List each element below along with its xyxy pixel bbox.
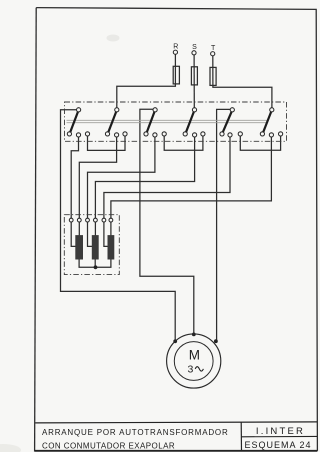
pole 4 contact c [201,132,205,136]
pole 3 contact c [162,132,166,136]
wire contact 1b to autotransformer terminal t1 [71,136,78,221]
wire contact 4b to autotransformer terminal t4 [95,136,194,221]
wire terminal t5 to winding W3 tap [104,220,108,246]
svg-text:3: 3 [187,363,193,375]
pole 5 contact b [228,133,232,137]
pole 6 pivot [270,108,274,112]
switch pole 6 lever [263,111,271,133]
wire bridge contacts 5c-6c [240,135,280,151]
wire terminal t2 to winding W1 top [78,220,80,235]
wire R phase: terminal to fuse to pole 2 pivot [117,53,176,110]
wire pole5 pivot to motor W [217,109,233,341]
pole 3 pivot [153,108,157,112]
wire pole1 pivot to node U run: left bus down to motor U [61,110,176,342]
wire terminal t4 to winding W2 top [94,220,96,235]
pole 2 contact b [115,133,119,137]
wire winding W2 bottom to star bus [94,260,96,268]
switch pole 5 lever [223,111,232,133]
fuse F1 (phase R) [173,66,179,84]
svg-text:ARRANQUE POR AUTOTRANSFORMADOR: ARRANQUE POR AUTOTRANSFORMADOR [42,428,229,437]
switch enclosure dash-dot box (conmutador exapolar) [65,102,287,141]
fuse F2 (phase S) [191,67,197,85]
junction dot motor V [192,333,196,337]
wire T phase: terminal to fuse to pole 6 pivot [213,55,272,110]
junction dot motor W [214,339,218,343]
pole 2 pivot [115,108,119,112]
autotransformer terminal t6 [109,218,113,222]
autotransformer enclosure dash-dot box [64,215,119,275]
wire pole3 pivot to motor V [140,109,194,335]
switch pole 1 lever [70,111,78,133]
svg-text:T: T [211,45,216,52]
wire contact 3b to autotransformer terminal t3 [88,136,155,221]
supply terminal T [211,52,215,56]
pole 4 contact a [183,132,187,136]
pole 5 pivot [230,108,234,112]
winding W2 (autotransformer phase 2) [92,235,99,259]
winding W3 (autotransformer phase 3) [108,235,115,259]
junction dot motor U [173,339,177,343]
wire terminal t3 to winding W2 tap [88,220,92,246]
switch pole 3 lever [147,111,155,133]
supply terminal S [192,51,196,55]
switch mechanical coupling bar [67,120,268,122]
pole 2 contact c [123,132,127,136]
pole 1 contact b [76,133,80,137]
wire contact 6b to autotransformer terminal t6 [111,136,272,221]
wire contact 2b to autotransformer terminal t2 [79,136,116,221]
pole 2 contact a [105,132,109,136]
pole 1 contact a [67,132,71,136]
switch pole 2 lever [108,111,116,133]
motor label sine wave [195,367,203,371]
autotransformer terminal t2 [77,218,81,222]
motor M1 outer circle [167,334,221,388]
wire S phase: terminal to fuse to pole 4 pivot [193,54,195,110]
svg-text:ESQUEMA 24: ESQUEMA 24 [244,440,311,450]
svg-text:I.INTER: I.INTER [256,426,305,437]
pole 1 contact c [85,132,89,136]
junction dot star point [94,265,98,269]
pole 6 contact b [269,133,273,137]
pole 4 pivot [192,108,196,112]
autotransformer terminal t1 [69,218,73,222]
svg-text:M: M [189,348,200,363]
wire terminal t1 to winding W1 tap [71,220,75,246]
wire star point bus [79,260,111,268]
winding W1 (autotransformer phase 1) [75,235,83,259]
svg-text:R: R [173,44,178,51]
pole 5 contact a [220,132,224,136]
svg-text:CON CONMUTADOR EXAPOLAR: CON CONMUTADOR EXAPOLAR [42,441,175,450]
fuse F3 (phase T) [210,67,216,85]
autotransformer terminal t4 [94,218,98,222]
pole 6 contact c [279,132,283,136]
autotransformer terminal t5 [102,218,106,222]
pole 6 contact a [260,132,264,136]
pole 4 contact b [193,133,197,137]
motor M1 inner circle [174,342,213,381]
autotransformer terminal t3 [86,218,90,222]
pole 5 contact c [238,132,242,136]
pole 3 contact b [153,133,157,137]
wire terminal t6 to winding W3 top [110,220,112,235]
pole 3 contact a [144,132,148,136]
pole 1 pivot [77,108,81,112]
switch pole 4 lever [186,111,194,133]
supply terminal R [173,50,177,54]
title block lines [35,422,318,451]
wire bridge contacts 3c-4c [164,135,203,151]
svg-text:S: S [192,44,197,51]
wire contact 5b to autotransformer terminal t5 [104,136,230,221]
wire bridge contacts 1c-2c [88,135,126,151]
